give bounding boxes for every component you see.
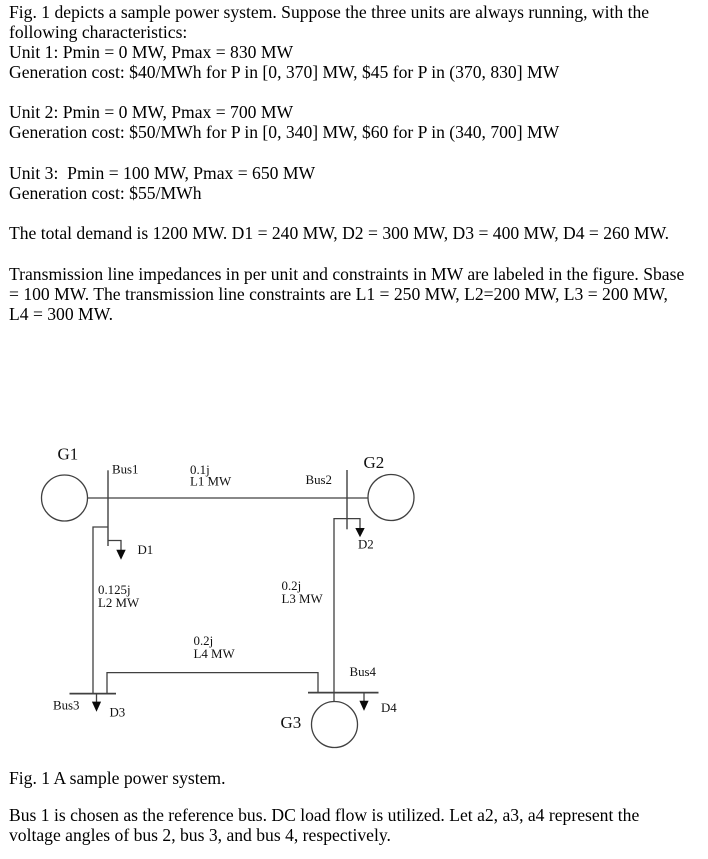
svg-text:Bus2: Bus2 <box>306 473 333 487</box>
line L2 value label <box>98 583 140 610</box>
svg-text:G1: G1 <box>58 445 79 464</box>
generator G1 <box>42 475 88 521</box>
load D1 label <box>138 543 154 557</box>
bus Bus4 label <box>350 665 377 679</box>
bus Bus1 label <box>112 463 139 477</box>
load D2 (arrow from Bus2) <box>347 519 365 538</box>
load D2 label <box>358 538 374 552</box>
svg-text:D3: D3 <box>110 705 126 719</box>
figure caption <box>9 768 226 788</box>
load D3 label <box>110 705 126 719</box>
line L1 value label <box>190 463 232 489</box>
bus Bus3 label <box>53 699 80 713</box>
wire line L3 (Bus2 to Bus4) <box>334 519 347 693</box>
svg-text:L1 MW: L1 MW <box>190 475 232 489</box>
svg-text:0.2j: 0.2j <box>282 579 302 593</box>
svg-text:G2: G2 <box>364 453 385 472</box>
load D1 (arrow from Bus1) <box>108 541 126 560</box>
load D4 label <box>381 701 397 715</box>
svg-text:L4 MW: L4 MW <box>194 647 236 661</box>
generator G3 <box>312 702 358 748</box>
bus Bus2 (vertical bus bar) <box>346 470 348 529</box>
bottom paragraph <box>9 805 639 845</box>
generator G2 <box>368 475 414 521</box>
svg-text:0.2j: 0.2j <box>194 634 214 648</box>
load D3 (arrow from Bus3) <box>92 694 101 712</box>
generator G2 label <box>364 453 385 472</box>
line L3 value label <box>282 579 324 606</box>
wire line L2 (Bus1 to Bus3) <box>93 527 108 694</box>
svg-text:Bus4: Bus4 <box>350 665 377 679</box>
bus Bus3 (horizontal bus bar) <box>70 693 117 695</box>
bus Bus1 (vertical bus bar) <box>107 470 109 546</box>
wire line L1 (Bus1 to Bus2) <box>88 497 369 499</box>
svg-text:0.125j: 0.125j <box>98 583 131 597</box>
svg-text:Bus3: Bus3 <box>53 699 80 713</box>
load D4 (arrow from Bus4) <box>359 693 368 711</box>
generator G1 label <box>58 445 79 464</box>
bus Bus2 label <box>306 473 333 487</box>
wire stub G3 to Bus4 <box>333 693 335 702</box>
line L4 value label <box>194 634 236 661</box>
wire line L4 (Bus3 to Bus4) <box>107 673 318 694</box>
svg-text:Bus1: Bus1 <box>112 463 139 477</box>
svg-text:L3 MW: L3 MW <box>282 592 324 606</box>
bus Bus4 (horizontal bus bar) <box>308 692 379 694</box>
svg-text:D1: D1 <box>138 543 154 557</box>
generator G3 label <box>281 713 302 732</box>
svg-text:D4: D4 <box>381 701 397 715</box>
svg-text:D2: D2 <box>358 538 374 552</box>
svg-text:L2 MW: L2 MW <box>98 596 140 610</box>
svg-text:G3: G3 <box>281 713 302 732</box>
top paragraph text <box>9 2 684 325</box>
